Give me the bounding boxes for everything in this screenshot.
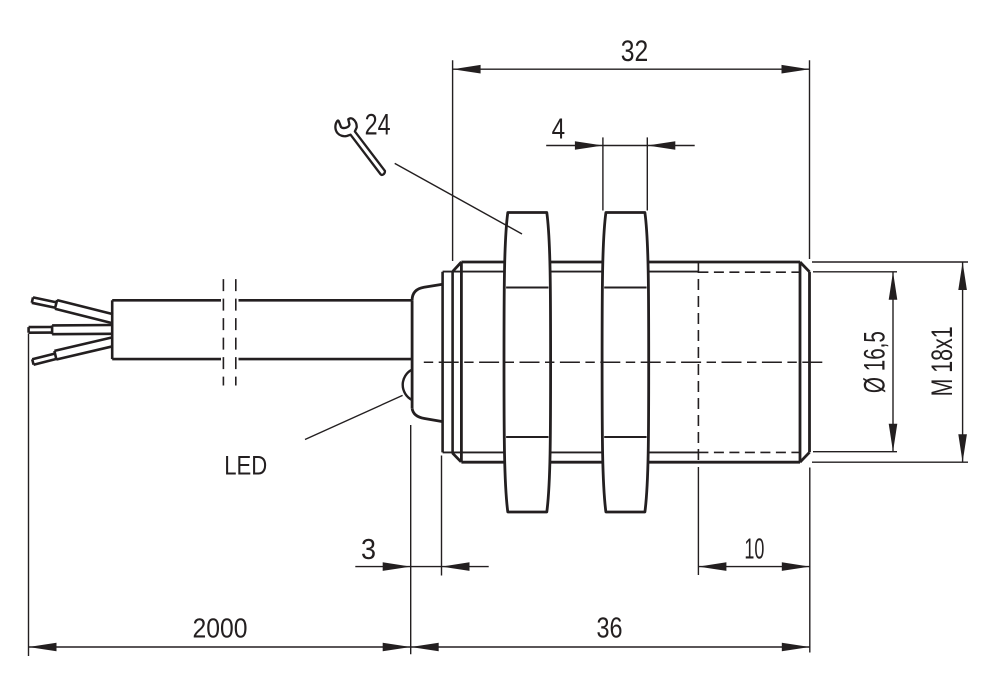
svg-text:4: 4: [552, 113, 566, 145]
barrel right bottom chamfer: [800, 452, 810, 462]
dim 36 arrow left: [411, 643, 439, 652]
barrel right top chamfer: [800, 262, 810, 272]
dim 10 line: [698, 566, 809, 568]
dim 10 extension line right: [809, 468, 811, 653]
dim M18x1 extension line bottom: [812, 461, 968, 463]
centerline: [424, 361, 827, 363]
wire 3 conductor: [34, 359, 57, 365]
cable end face: [111, 300, 114, 359]
wire 2 insulation: [52, 332, 112, 335]
dim 4 extension line left: [602, 137, 604, 210]
barrel left top chamfer: [453, 262, 462, 271]
thread end hidden line: [697, 262, 699, 462]
LED leader line: [305, 395, 403, 439]
dim 36 line: [411, 646, 810, 648]
mounting nut 1: [504, 213, 551, 513]
dim 2000 arrow left: [29, 643, 57, 652]
svg-text:M 18x1: M 18x1: [926, 326, 959, 396]
thread root line top: [443, 271, 699, 273]
flange right edge: [451, 271, 454, 453]
dim 4 line: [546, 145, 695, 147]
dim M18x1 arrow bottom: [958, 434, 967, 462]
dim D16.5 extension line top: [813, 271, 897, 273]
dim 10 extension line left: [697, 467, 699, 575]
barrel bottom OD edge: [461, 461, 800, 464]
svg-text:36: 36: [597, 613, 623, 645]
sensor head left face: [411, 300, 414, 408]
wrench leader line: [395, 163, 522, 234]
dim D16.5 extension line bottom: [813, 451, 897, 453]
dim 10 arrow left: [698, 562, 726, 571]
sensor head top edge: [412, 284, 443, 300]
dim M18x1 extension line top: [812, 261, 968, 263]
dim 3 line: [355, 566, 488, 568]
dim 2000 extension line: [28, 334, 30, 657]
dim 3 extension line left: [410, 425, 412, 654]
hidden line D16.5 bottom: [698, 451, 799, 453]
sensor head bottom edge: [412, 408, 443, 421]
dim 4 arrow left: [575, 141, 603, 150]
wire 1 insulation: [55, 309, 111, 323]
cable sheath bottom edge: [112, 358, 221, 361]
dim 32 arrow right: [782, 65, 810, 74]
dim 4 arrow right: [647, 141, 675, 150]
svg-text:24: 24: [365, 109, 391, 142]
svg-text:LED: LED: [224, 450, 267, 480]
dim D16.5 arrow bottom: [889, 424, 898, 452]
dim 36 arrow right: [782, 643, 810, 652]
LED dome arc: [403, 370, 412, 400]
flange left edge: [441, 272, 444, 453]
cable sheath top edge: [112, 299, 221, 302]
cable break line 1: [222, 279, 224, 385]
dim 32 arrow left: [453, 65, 481, 74]
dim 4 extension line right: [646, 137, 648, 210]
dim 3 arrow right: [442, 562, 470, 571]
barrel left face: [460, 262, 463, 462]
dim 32 extension line right: [809, 60, 811, 259]
dim M18x1 line: [962, 262, 964, 462]
dim 32 extension line left: [452, 60, 454, 261]
barrel left bottom chamfer: [453, 453, 461, 462]
barrel top OD edge: [461, 261, 800, 264]
dim D16.5 arrow top: [889, 272, 898, 300]
dim D16.5 line: [892, 272, 894, 452]
hidden line D16.5 top: [698, 271, 799, 273]
svg-text:10: 10: [744, 534, 764, 566]
barrel right end ring: [799, 262, 802, 462]
dim M18x1 arrow top: [958, 262, 967, 290]
svg-text:3: 3: [361, 534, 376, 566]
mounting nut 2: [602, 213, 649, 513]
svg-text:Ø 16,5: Ø 16,5: [859, 331, 892, 393]
svg-text:2000: 2000: [193, 613, 248, 644]
dim 32 line: [453, 68, 810, 70]
wire 3 insulation: [56, 346, 113, 359]
svg-text:32: 32: [621, 35, 649, 68]
wire 2 conductor: [29, 331, 53, 334]
barrel right face: [808, 272, 811, 453]
dim 2000 arrow right: [383, 643, 411, 652]
dim 3 extension line right: [441, 456, 443, 576]
wrench icon (SW 24): [333, 112, 385, 184]
cable break line 2: [235, 279, 237, 385]
dim 2000 line: [29, 646, 411, 648]
dim 10 arrow right: [782, 562, 810, 571]
dim 3 arrow left: [383, 562, 411, 571]
wire 1 conductor: [32, 303, 56, 308]
thread root line bottom: [443, 451, 699, 453]
